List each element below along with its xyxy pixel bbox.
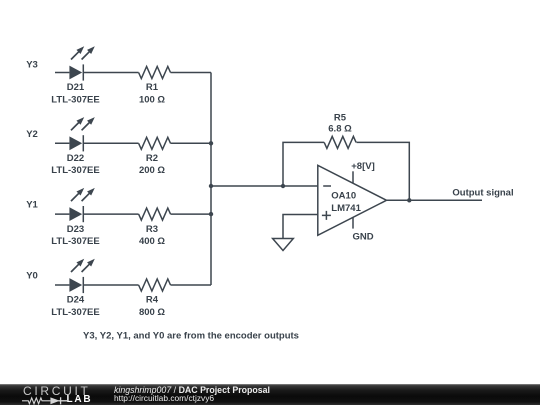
svg-text:D21: D21 [67, 82, 85, 93]
node junction dot bus-opamp [209, 184, 213, 188]
footer title text [114, 386, 270, 396]
LED D23 cathode bar [82, 206, 84, 222]
CircuitLab logo [22, 385, 94, 405]
op-amp OA10 triangle [318, 165, 387, 235]
LED D22 cathode bar [82, 135, 84, 151]
LED D21 triangle [69, 66, 82, 80]
op-amp plus sign [322, 211, 331, 220]
svg-text:6.8 Ω: 6.8 Ω [328, 124, 352, 135]
resistor R5 zigzag [324, 136, 356, 148]
svg-text:R1: R1 [146, 82, 159, 93]
op-amp minus sign [323, 185, 331, 187]
svg-text:D24: D24 [67, 295, 85, 306]
wire feedback left [283, 142, 324, 186]
svg-text:D22: D22 [67, 153, 84, 164]
node junction dot bus-Y1 [209, 212, 213, 216]
wire Y1 row [55, 213, 211, 215]
svg-text:Y3, Y2, Y1, and Y0 are from th: Y3, Y2, Y1, and Y0 are from the encoder … [83, 330, 299, 341]
svg-text:LTL-307EE: LTL-307EE [51, 236, 99, 247]
svg-text:R4: R4 [146, 295, 159, 306]
svg-text:200 Ω: 200 Ω [139, 165, 165, 176]
LED D22 light arrows [71, 117, 95, 130]
footer url text [114, 394, 214, 404]
LED D24 triangle [69, 278, 82, 292]
LED D23 light arrows [71, 188, 95, 201]
LED D23 triangle [69, 207, 82, 221]
svg-text:LTL-307EE: LTL-307EE [51, 94, 99, 105]
LED D24 light arrows [71, 259, 95, 272]
LED D21 light arrows [71, 46, 95, 59]
svg-text:100 Ω: 100 Ω [139, 94, 165, 105]
node junction dot feedback-right [407, 198, 411, 202]
svg-text:GND: GND [352, 232, 373, 243]
svg-text:OA10: OA10 [331, 191, 356, 202]
wire Y3 row [55, 72, 211, 74]
resistor R3 zigzag [139, 208, 171, 220]
logo wire resistor [22, 398, 50, 404]
svg-text:LM741: LM741 [331, 203, 361, 214]
resistor R4 zigzag [139, 279, 171, 291]
svg-text:+8[V]: +8[V] [351, 161, 375, 172]
svg-text:400 Ω: 400 Ω [139, 236, 165, 247]
ground symbol [273, 239, 294, 251]
svg-text:R5: R5 [334, 112, 347, 123]
wire output [387, 199, 483, 201]
svg-text:800 Ω: 800 Ω [139, 307, 165, 318]
wire feedback right [357, 142, 410, 200]
LED D21 cathode bar [82, 64, 84, 80]
wire Y0 row [55, 284, 211, 286]
svg-text:Y0: Y0 [26, 271, 38, 282]
wire noninverting input [283, 215, 318, 239]
wire inverting input [211, 185, 318, 187]
wire bus vertical [210, 73, 212, 286]
svg-text:LTL-307EE: LTL-307EE [51, 165, 99, 176]
LED D22 triangle [69, 136, 82, 150]
node junction dot feedback-left [281, 184, 285, 188]
svg-text:Y2: Y2 [26, 129, 38, 140]
svg-text:Y1: Y1 [26, 200, 38, 211]
logo diode [50, 397, 59, 404]
svg-text:LTL-307EE: LTL-307EE [51, 307, 99, 318]
svg-text:D23: D23 [67, 224, 84, 235]
op-amp gnd pin [352, 218, 354, 229]
wire Y2 row [55, 142, 211, 144]
op-amp power pin [352, 171, 354, 183]
footer bar [0, 384, 540, 405]
svg-text:R2: R2 [146, 153, 158, 164]
node junction dot bus-Y2 [209, 141, 213, 145]
svg-text:Y3: Y3 [26, 60, 38, 71]
resistor R2 zigzag [139, 137, 171, 149]
resistor R1 zigzag [139, 67, 171, 79]
svg-text:R3: R3 [146, 224, 158, 235]
svg-text:Output signal: Output signal [452, 187, 513, 198]
LED D24 cathode bar [82, 277, 84, 293]
